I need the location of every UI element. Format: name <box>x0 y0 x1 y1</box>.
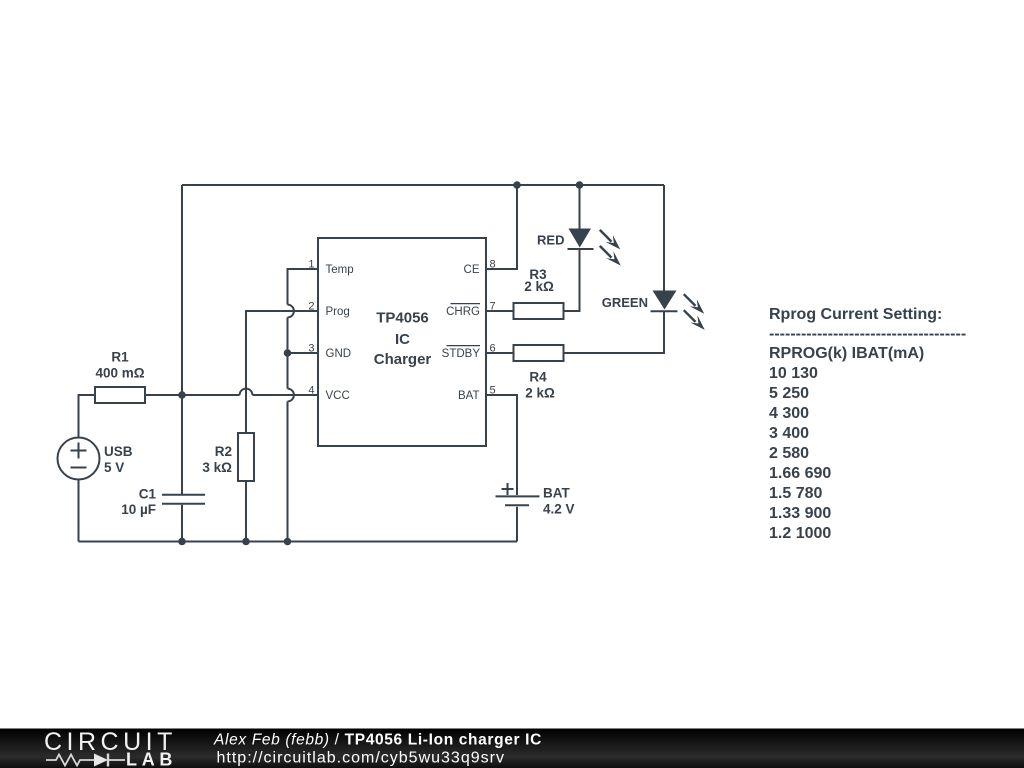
node junction at GND line bottom rail <box>284 538 292 546</box>
node junction at R2 bottom rail <box>242 538 250 546</box>
svg-text:8: 8 <box>490 259 496 271</box>
svg-text:10 µF: 10 µF <box>121 502 156 517</box>
op-amp U1 TP4056 IC box <box>318 238 486 446</box>
svg-text:Prog: Prog <box>326 306 350 318</box>
svg-text:1.66 690: 1.66 690 <box>769 465 831 482</box>
RED LED emission arrows <box>600 230 621 266</box>
svg-text:BAT: BAT <box>543 486 570 501</box>
svg-text:1.33 900: 1.33 900 <box>769 505 831 522</box>
svg-text:5 V: 5 V <box>104 460 124 475</box>
svg-text:4.2 V: 4.2 V <box>543 502 575 517</box>
svg-text:GREEN: GREEN <box>602 295 648 310</box>
svg-text:1.5 780: 1.5 780 <box>769 485 822 502</box>
node junction CE top rail <box>513 181 521 189</box>
wire node to C1 top plate <box>181 395 183 494</box>
wire battery minus to bottom rail <box>516 507 518 542</box>
svg-text:http://circuitlab.com/cyb5wu33: http://circuitlab.com/cyb5wu33q9srv <box>217 750 505 767</box>
battery BAT <box>496 483 540 505</box>
wire GND node down to bottom rail with hop over VCC wire <box>287 353 289 542</box>
GREEN LED emission arrows <box>684 294 705 330</box>
resistor R4 <box>514 345 564 361</box>
svg-text:10 130: 10 130 <box>769 365 818 382</box>
svg-text:R1: R1 <box>111 350 129 365</box>
resistor R2 <box>238 433 254 481</box>
node junction at VCC and riser <box>178 391 186 399</box>
svg-text:Temp: Temp <box>326 264 354 276</box>
wire STDBY pin 6 to R4 <box>486 352 514 354</box>
wire top rail <box>182 184 664 186</box>
wire hop on VCC wire over Prog/R2 vertical <box>240 389 253 395</box>
svg-text:3 kΩ: 3 kΩ <box>202 460 232 475</box>
svg-text:3 400: 3 400 <box>769 425 809 442</box>
svg-text:5 250: 5 250 <box>769 385 809 402</box>
capacitor C1 <box>162 495 205 504</box>
resistor R3 <box>514 303 564 319</box>
svg-text:R4: R4 <box>529 370 547 385</box>
wire Temp pin 1 left and down to GND pin 3 with hop over Prog wire <box>288 269 319 353</box>
svg-text:2 580: 2 580 <box>769 445 809 462</box>
note Rprog Current Setting table <box>769 306 966 542</box>
wire top-left riser from VCC node up to top rail <box>181 185 183 395</box>
svg-text:------------------------------: ------------------------------------- <box>769 326 966 343</box>
wire hop vertical over VCC wire <box>288 389 294 402</box>
svg-text:CE: CE <box>464 264 480 276</box>
wire bottom rail <box>79 541 518 543</box>
svg-text:TP4056: TP4056 <box>376 310 429 327</box>
svg-text:VCC: VCC <box>326 390 350 402</box>
svg-text:BAT: BAT <box>458 390 480 402</box>
diode GREEN LED <box>651 291 678 312</box>
svg-text:USB: USB <box>104 444 133 459</box>
svg-text:RED: RED <box>537 233 564 248</box>
svg-text:1: 1 <box>308 259 314 271</box>
voltage source USB <box>58 438 100 480</box>
svg-text:1.2 1000: 1.2 1000 <box>769 525 831 542</box>
svg-text:3: 3 <box>308 343 314 355</box>
svg-text:2: 2 <box>308 301 314 313</box>
svg-text:Alex Feb (febb) / TP4056 Li-Io: Alex Feb (febb) / TP4056 Li-Ion charger … <box>213 732 542 749</box>
svg-text:4: 4 <box>308 385 314 397</box>
wire right drop from top rail to GREEN LED <box>663 185 665 291</box>
svg-text:Rprog Current Setting:: Rprog Current Setting: <box>769 306 942 323</box>
wire RED LED cathode down to R3 <box>564 249 580 311</box>
svg-text:4 300: 4 300 <box>769 405 809 422</box>
wire hop vertical over Prog wire <box>288 305 294 318</box>
wire USB plus to R1 <box>79 395 96 438</box>
wire GND pin 3 stub <box>288 352 319 354</box>
svg-text:LAB: LAB <box>126 750 177 768</box>
wire GREEN LED cathode down and left to R4 <box>564 311 665 353</box>
node junction at C1 bottom rail <box>178 538 186 546</box>
svg-text:STDBY: STDBY <box>442 348 481 360</box>
svg-text:400 mΩ: 400 mΩ <box>95 366 144 381</box>
wire C1 bottom plate to bottom rail <box>181 505 183 542</box>
svg-text:2 kΩ: 2 kΩ <box>525 386 555 401</box>
footer bar <box>0 729 1024 768</box>
svg-text:GND: GND <box>326 348 352 360</box>
node junction at GND pin <box>284 349 292 357</box>
wire R2 to bottom rail <box>245 481 247 542</box>
resistor R1 <box>95 387 145 403</box>
node junction RED LED top rail <box>576 181 584 189</box>
svg-text:2 kΩ: 2 kΩ <box>524 279 554 294</box>
svg-text:CHRG: CHRG <box>446 306 480 318</box>
svg-text:RPROG(k) IBAT(mA): RPROG(k) IBAT(mA) <box>769 345 924 362</box>
svg-text:Charger: Charger <box>374 351 432 368</box>
CircuitLab logo resistor-diode squiggle <box>46 754 125 767</box>
wire RED LED drop from top rail <box>579 185 581 229</box>
svg-text:C1: C1 <box>139 487 157 502</box>
wire USB minus down to bottom rail <box>78 480 80 542</box>
wire CE pin 8 to top rail <box>486 185 517 269</box>
wire CHRG pin 7 to R3 <box>486 310 514 312</box>
wire Prog pin 2 left and down to R2 <box>246 311 318 433</box>
wire R1 to VCC pin 4 with hop over R2 line <box>145 394 318 396</box>
svg-text:R2: R2 <box>215 444 232 459</box>
diode RED LED <box>568 229 594 250</box>
wire BAT pin 5 right and down to battery <box>486 395 517 495</box>
svg-text:IC: IC <box>395 331 410 348</box>
